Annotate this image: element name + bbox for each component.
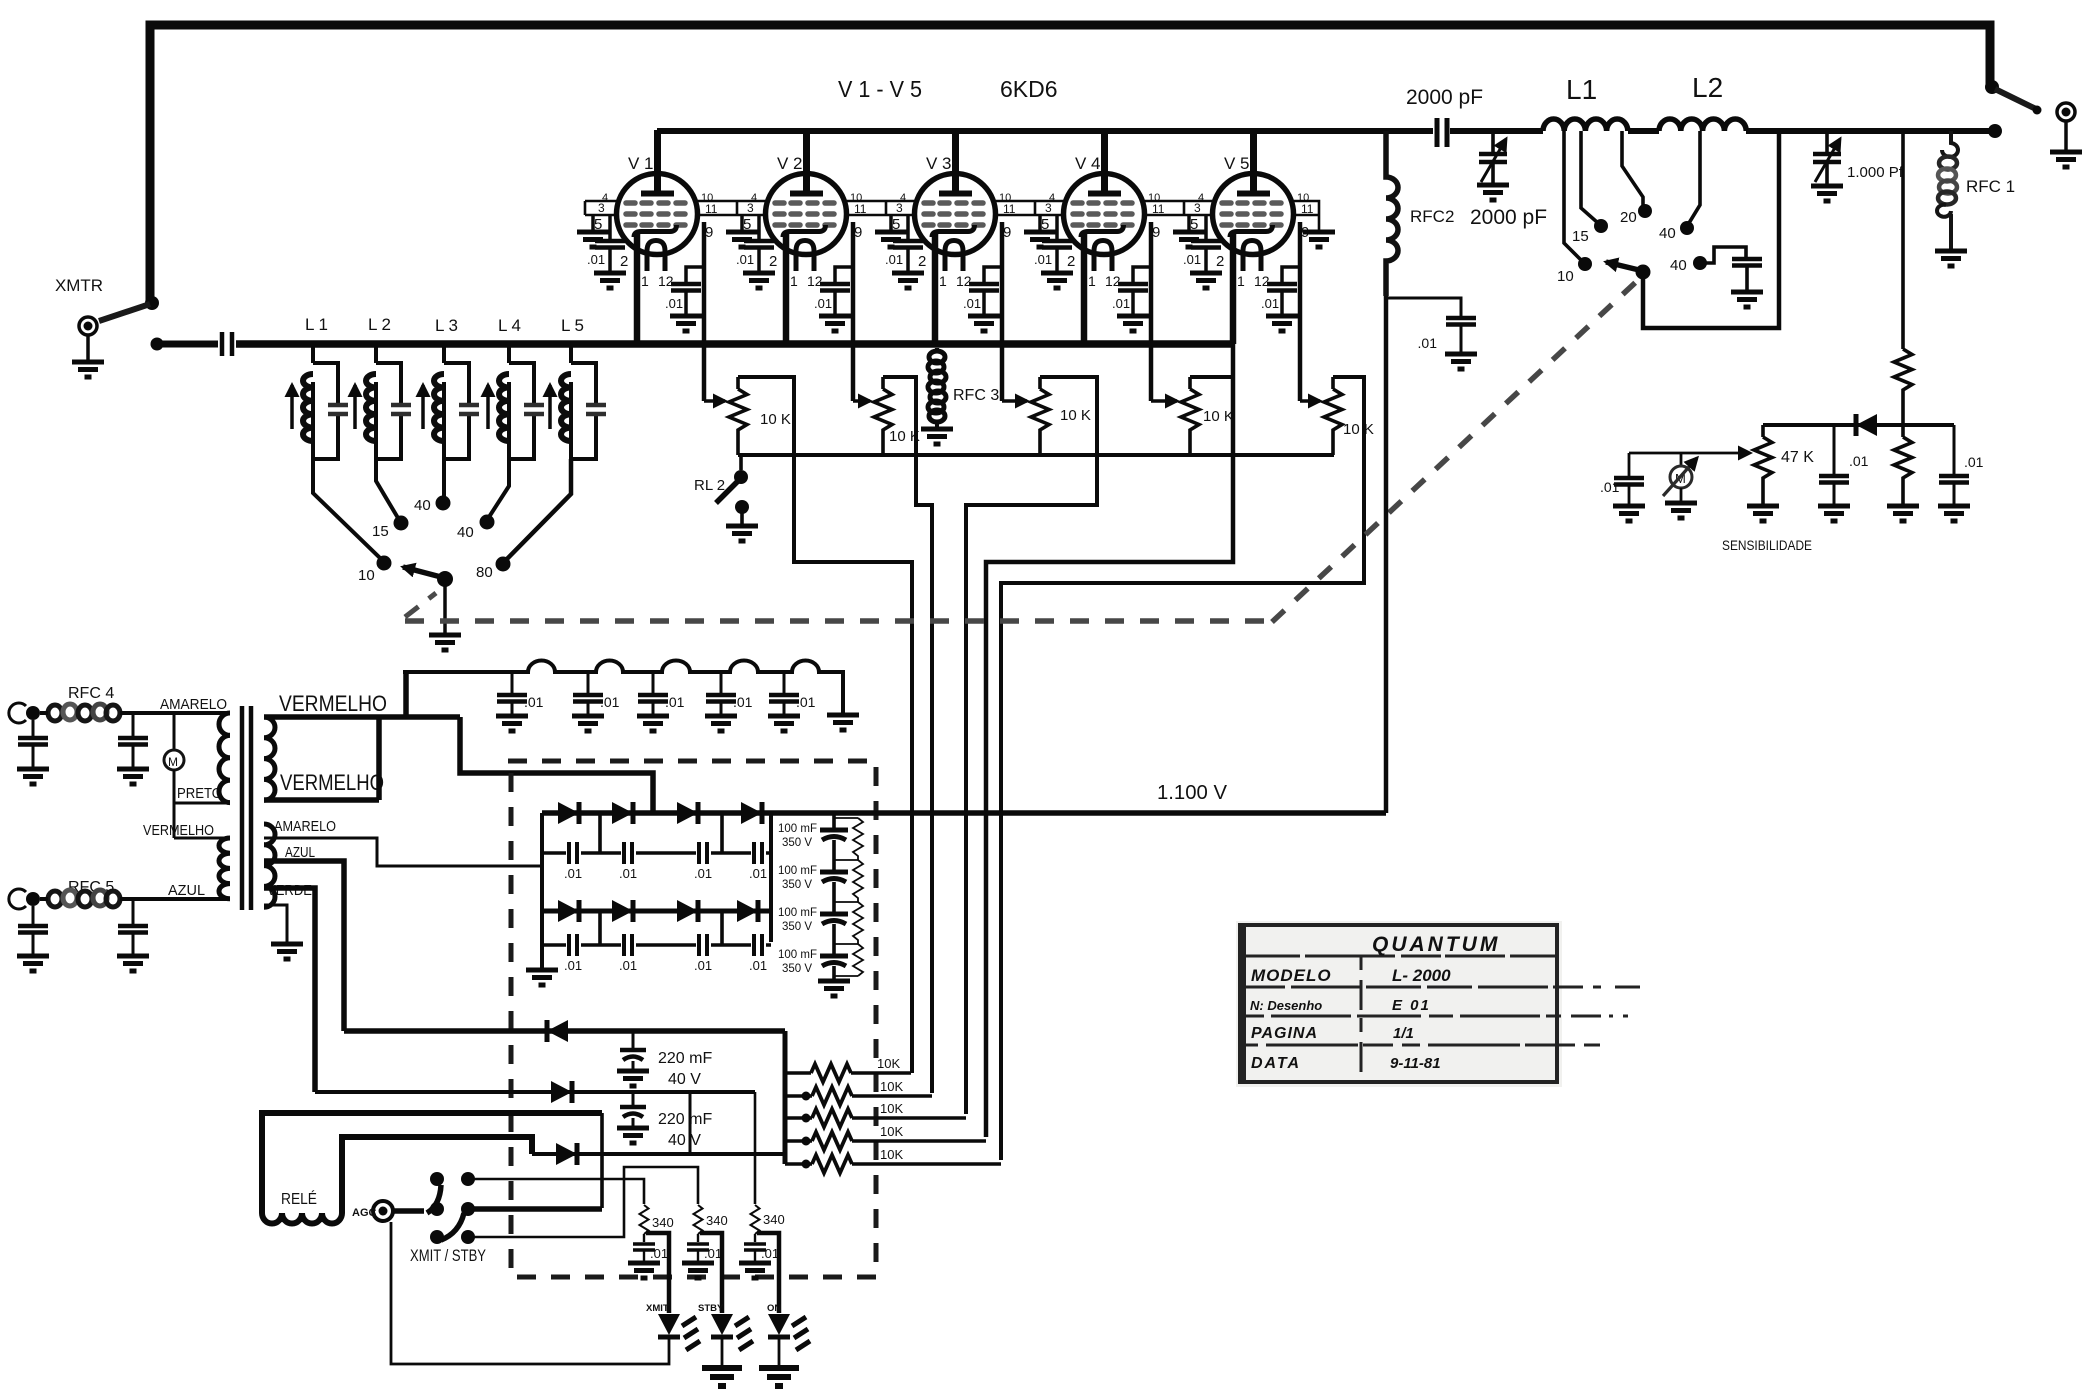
svg-text:.01: .01 xyxy=(1418,335,1438,351)
ground RFC4 left xyxy=(17,769,49,784)
svg-text:SENSIBILIDADE: SENSIBILIDADE xyxy=(1722,537,1812,553)
transformer secondary winding upper xyxy=(264,717,275,800)
connector AGC xyxy=(373,1201,393,1221)
capacitor 100mF chain xyxy=(832,813,836,979)
wire L2 tap 40 xyxy=(1689,131,1700,223)
wire tank2 stub xyxy=(374,341,378,363)
wire bias diode2 line xyxy=(315,1090,755,1094)
capacitor 220mF no1 xyxy=(632,1031,635,1048)
wire L1 tap 15 xyxy=(1581,131,1598,223)
connector RFC4 xyxy=(26,706,40,720)
switch band arm xyxy=(403,567,441,577)
svg-text:10 K: 10 K xyxy=(1060,407,1091,424)
wire LED3 to ground xyxy=(778,1338,781,1366)
svg-text:XMIT / STBY: XMIT / STBY xyxy=(410,1246,486,1265)
svg-text:.01: .01 xyxy=(564,866,582,881)
capacitor .01 right xyxy=(1939,476,1969,483)
svg-text:XMTR: XMTR xyxy=(55,276,103,295)
coil RFC5 xyxy=(48,890,120,907)
wire contact mid thick xyxy=(469,1206,602,1212)
node contact 10 xyxy=(377,556,392,571)
ground LED3 xyxy=(759,1368,799,1386)
resistor bank 10K no2 xyxy=(785,1094,932,1098)
wire LED2 to ground xyxy=(721,1338,724,1366)
ground divider xyxy=(1887,506,1919,521)
capacitor chain .01 no1 xyxy=(511,672,514,694)
diode detector xyxy=(1856,414,1877,436)
capacitor 2000pF series xyxy=(1437,118,1447,147)
wire diode row2 xyxy=(542,909,771,914)
svg-text:.01: .01 xyxy=(564,958,582,973)
svg-text:80: 80 xyxy=(476,564,493,581)
svg-text:AMARELO: AMARELO xyxy=(160,696,227,713)
resistor 340 no3 xyxy=(751,1205,760,1234)
capacitor .01 led3 xyxy=(754,1234,756,1242)
wire grid band V3-V4 xyxy=(995,201,1064,215)
capacitor .01 meter xyxy=(1614,478,1644,485)
wire pot1 feed to psu xyxy=(738,377,912,1073)
wire antenna connector stub xyxy=(2064,121,2068,150)
svg-text:.01: .01 xyxy=(600,694,620,710)
svg-text:10: 10 xyxy=(1557,268,1574,285)
svg-text:10 K: 10 K xyxy=(760,411,791,428)
svg-text:220 mF: 220 mF xyxy=(658,1050,712,1067)
wire VERDE sec xyxy=(264,888,315,1092)
resistor bank 10K no1 xyxy=(785,1071,911,1075)
wire B+ line with diode row1 xyxy=(542,810,1386,816)
node switch pole top-left xyxy=(145,296,159,310)
wire cap row1 xyxy=(542,851,771,855)
resistor divider lower xyxy=(1894,437,1912,481)
tube V5 xyxy=(1173,130,1314,401)
dashed gang line horizontal xyxy=(405,618,1272,624)
svg-text:V 5: V 5 xyxy=(1224,154,1250,173)
capacitor .01 RFC2 xyxy=(1446,318,1476,325)
wire bias diode3 line xyxy=(532,1152,785,1156)
svg-text:.01: .01 xyxy=(1964,454,1984,470)
svg-text:L 3: L 3 xyxy=(435,316,458,335)
svg-text:100 mF: 100 mF xyxy=(778,823,817,835)
tube V1 xyxy=(577,130,718,401)
transformer secondary winding lower xyxy=(264,824,275,907)
potentiometer 47 K xyxy=(1761,425,1765,504)
LED ON xyxy=(768,1314,810,1350)
svg-text:340: 340 xyxy=(706,1213,728,1228)
wire LED1 return loop xyxy=(391,1222,669,1364)
transformer core xyxy=(242,706,251,910)
capacitor variable 1.000 Pf xyxy=(1825,131,1829,152)
meter M sens xyxy=(1670,466,1692,488)
svg-text:9-11-81: 9-11-81 xyxy=(1390,1055,1441,1072)
svg-text:V 2: V 2 xyxy=(777,154,803,173)
wire grid band V4-V5 xyxy=(1144,201,1213,215)
transformer primary winding lower xyxy=(219,838,230,899)
wire plate bus xyxy=(657,128,1995,134)
svg-text:10K: 10K xyxy=(880,1124,903,1139)
wire divider chain xyxy=(1901,131,1905,504)
svg-text:L 1: L 1 xyxy=(305,315,328,334)
wire cap row2 xyxy=(542,943,771,947)
svg-text:L 5: L 5 xyxy=(561,316,584,335)
wire tank4 to contact 40b xyxy=(489,459,509,517)
svg-text:10K: 10K xyxy=(880,1101,903,1116)
svg-text:E 01: E 01 xyxy=(1392,997,1431,1014)
diode row1 d4 xyxy=(741,802,762,824)
svg-text:40: 40 xyxy=(1659,225,1676,242)
diode bias1 xyxy=(547,1020,568,1042)
wire 340no2 to LED2 xyxy=(700,1233,722,1313)
capacitor .01 led2 xyxy=(697,1234,699,1242)
wire bridge left vertical xyxy=(540,813,544,968)
svg-text:RELÉ: RELÉ xyxy=(281,1189,317,1208)
capacitor RFC5 left xyxy=(32,906,35,925)
svg-text:AMARELO: AMARELO xyxy=(274,818,336,835)
switch arrow into pot5 xyxy=(1300,399,1320,403)
svg-text:DATA: DATA xyxy=(1251,1055,1301,1072)
switch XMIT/STBY arms xyxy=(392,1208,424,1214)
wire meter bracket xyxy=(1629,452,1750,455)
LED XMIT xyxy=(658,1314,700,1350)
svg-text:VERMELHO: VERMELHO xyxy=(280,770,384,795)
svg-text:350 V: 350 V xyxy=(782,921,812,933)
ground RFC1 xyxy=(1935,251,1967,266)
svg-text:100 mF: 100 mF xyxy=(778,865,817,877)
svg-text:N: Desenho: N: Desenho xyxy=(1250,998,1322,1013)
svg-text:PRETO: PRETO xyxy=(177,785,222,802)
svg-text:100 mF: 100 mF xyxy=(778,949,817,961)
ground .01 right xyxy=(1938,506,1970,521)
wire bus end down to psu xyxy=(986,344,1233,1137)
wire L1 tap 10 xyxy=(1564,131,1582,261)
capacitor 220mF no2 xyxy=(632,1092,635,1105)
ground .01 mid xyxy=(1818,506,1850,521)
svg-text:.01: .01 xyxy=(1849,453,1869,469)
svg-text:10K: 10K xyxy=(880,1079,903,1094)
svg-text:AZUL: AZUL xyxy=(168,882,205,899)
svg-text:1.100 V: 1.100 V xyxy=(1157,782,1228,804)
wire RFC2 down to B+ xyxy=(1384,296,1389,813)
svg-text:STBY: STBY xyxy=(698,1303,724,1314)
node bus right end xyxy=(1988,124,2002,138)
switch arrow into pot4 xyxy=(1151,399,1177,403)
svg-text:.01: .01 xyxy=(619,866,637,881)
node antenna switch pole xyxy=(1985,80,1999,94)
ground LED2 xyxy=(702,1368,742,1386)
wire heater chain xyxy=(403,661,843,714)
ground RFC5 left xyxy=(17,956,49,971)
capacitor chain .01 no3 xyxy=(652,672,655,694)
wire RFC4 to transformer xyxy=(40,711,230,715)
wire tank5 to contact 80 xyxy=(506,459,571,560)
inductor/tank L5 xyxy=(550,363,606,459)
diode bias3 xyxy=(556,1143,577,1165)
connector XMTR xyxy=(79,317,97,335)
svg-text:20: 20 xyxy=(1620,209,1637,226)
svg-text:QUANTUM: QUANTUM xyxy=(1372,933,1500,956)
inductor/tank L3 xyxy=(423,363,479,459)
connector antenna xyxy=(2057,103,2075,121)
diode row2 d4 xyxy=(737,900,758,922)
ground RFC4 right xyxy=(117,769,149,784)
capacitor chain .01 no2 xyxy=(587,672,590,694)
switch arrow into pot3 xyxy=(1002,399,1027,403)
capacitor variable 2000pF xyxy=(1491,131,1495,152)
wire diode2 to 340 no3 xyxy=(754,1092,757,1204)
tube V3 xyxy=(875,130,1016,401)
wire bridge right vertical xyxy=(769,813,773,942)
svg-text:M: M xyxy=(168,755,178,769)
wire common grid line xyxy=(738,453,1334,457)
dashed link stub at band switch xyxy=(405,593,436,617)
ground variable cap xyxy=(1477,185,1509,200)
diode row1 d3 xyxy=(677,802,698,824)
switch arrow into pot1 xyxy=(704,399,725,403)
resistors bleeder x4 xyxy=(834,818,863,976)
node contact 15R xyxy=(1594,219,1608,233)
wire connector stub xyxy=(86,335,90,360)
inductor L1 xyxy=(1543,119,1628,131)
svg-text:350 V: 350 V xyxy=(782,963,812,975)
resistor bank 10K no5 xyxy=(785,1162,1001,1166)
capacitor chain .01 no5 xyxy=(783,672,786,694)
switch tune arm xyxy=(1606,262,1639,270)
resistor 340 no1 xyxy=(640,1205,649,1234)
svg-text:350 V: 350 V xyxy=(782,879,812,891)
title block frame xyxy=(1236,921,1562,1087)
wire grid band right of V5 xyxy=(1293,201,1319,230)
LED STBY xyxy=(711,1314,753,1350)
svg-text:10 K: 10 K xyxy=(1203,408,1234,425)
svg-text:15: 15 xyxy=(372,523,389,540)
node contact 40R2 xyxy=(1693,256,1707,270)
wire rotor to ground xyxy=(443,579,447,633)
wire main bus xyxy=(236,340,1233,348)
svg-text:RFC2: RFC2 xyxy=(1410,207,1454,226)
transformer primary winding upper xyxy=(219,713,230,803)
capacitor 40R2 xyxy=(1732,259,1762,266)
potentiometer 10K no3 xyxy=(1038,377,1042,455)
wire winding end to ground xyxy=(264,905,287,942)
diode row1 d2 xyxy=(612,802,633,824)
tube V4 xyxy=(1024,130,1165,401)
potentiometer 10K no5 xyxy=(1331,377,1335,455)
ground RFC5 right xyxy=(117,956,149,971)
svg-text:VERMELHO: VERMELHO xyxy=(143,822,214,839)
svg-text:RL 2: RL 2 xyxy=(694,477,725,494)
diode row2 d1 xyxy=(558,900,579,922)
ground chain end xyxy=(827,715,859,730)
wire detector line xyxy=(1763,423,1954,427)
svg-text:PAGINA: PAGINA xyxy=(1251,1025,1318,1042)
svg-text:RFC 1: RFC 1 xyxy=(1966,177,2015,196)
svg-text:AGC: AGC xyxy=(352,1207,377,1219)
ground .01 meter xyxy=(1613,506,1645,521)
node contact 20R xyxy=(1638,204,1652,218)
svg-text:40 V: 40 V xyxy=(668,1132,701,1149)
node contact 10R xyxy=(1578,257,1592,271)
ground winding end xyxy=(271,944,303,959)
ground 47K xyxy=(1747,506,1779,521)
svg-text:MODELO: MODELO xyxy=(1251,966,1332,985)
svg-text:.01: .01 xyxy=(761,1246,779,1261)
ground antenna xyxy=(2050,152,2082,167)
tube V2 xyxy=(726,130,867,401)
wire VERMELHO top xyxy=(264,672,653,813)
svg-text:10 K: 10 K xyxy=(1343,421,1374,438)
wire RFC3 stub xyxy=(935,348,939,427)
potentiometer 10K no2 xyxy=(881,377,885,455)
inductor L2 xyxy=(1659,119,1746,131)
wire RFC2 to bypass cap xyxy=(1386,298,1461,316)
wire relay drive down xyxy=(600,1113,604,1208)
switch band rotor xyxy=(437,571,453,587)
svg-text:1/1: 1/1 xyxy=(1393,1025,1414,1042)
capacitor RFC5 right xyxy=(132,899,135,925)
svg-text:RFC 4: RFC 4 xyxy=(68,685,114,702)
wire tank1 stub xyxy=(311,341,315,363)
svg-text:RFC 3: RFC 3 xyxy=(953,387,999,404)
svg-text:2000 pF: 2000 pF xyxy=(1470,206,1547,229)
wire grid band V2-V3 xyxy=(846,201,915,215)
wire AMARELO drop vertical xyxy=(541,866,544,968)
capacitor RFC4 left xyxy=(32,720,35,737)
wire contact low to 340 no2 xyxy=(467,1167,698,1237)
svg-text:.01: .01 xyxy=(524,694,544,710)
ground band switch xyxy=(429,635,461,650)
wire 40R2 to cap xyxy=(1706,247,1746,263)
wire bridge junction verticals xyxy=(600,813,722,945)
title block text xyxy=(1250,933,1500,1072)
svg-text:40: 40 xyxy=(1670,257,1687,274)
node bank dots xyxy=(802,1092,811,1101)
dashed psu box xyxy=(508,761,876,1277)
inductor/tank L4 xyxy=(488,363,544,459)
svg-text:340: 340 xyxy=(763,1212,785,1227)
switch XMTR arm xyxy=(99,304,150,321)
capacitor row2 .01 x4 xyxy=(569,934,577,956)
coil RFC4 xyxy=(48,704,120,721)
svg-text:220 mF: 220 mF xyxy=(658,1111,712,1128)
wire tank1 to contact 10 xyxy=(313,459,381,559)
svg-text:VERMELHO: VERMELHO xyxy=(279,691,387,716)
wire grid band V1-V2 xyxy=(697,201,766,215)
ground 1.000 Pf xyxy=(1811,186,1843,201)
svg-text:V 1: V 1 xyxy=(628,154,654,173)
capacitor .01 led1 xyxy=(643,1234,645,1242)
svg-text:L 4: L 4 xyxy=(498,316,521,335)
capacitor chain .01 no4 xyxy=(720,672,723,694)
meter M transformer xyxy=(164,750,184,770)
ground right of V5 xyxy=(1303,232,1335,247)
wire tank5 stub xyxy=(569,341,573,363)
wire main bus left xyxy=(157,341,218,348)
potentiometer 10K no1 xyxy=(736,377,740,455)
node contact 80 xyxy=(496,557,511,572)
wire tank3 stub xyxy=(442,341,446,363)
wire top outer loop xyxy=(150,25,1990,303)
ground XMTR xyxy=(72,362,104,377)
wire AMARELO sec xyxy=(264,838,542,866)
ground 100mF chain xyxy=(818,981,850,996)
wire contact up to 340 no1 xyxy=(468,1179,644,1204)
svg-text:L 2: L 2 xyxy=(368,315,391,334)
svg-text:V 3: V 3 xyxy=(926,154,952,173)
wire 340no3 to LED3 xyxy=(757,1233,779,1313)
svg-text:.01: .01 xyxy=(1600,479,1620,495)
wire 10K bank left vertical xyxy=(783,1031,788,1164)
svg-text:.01: .01 xyxy=(619,958,637,973)
svg-text:2000 pF: 2000 pF xyxy=(1406,86,1483,109)
svg-text:1.000 Pf: 1.000 Pf xyxy=(1847,164,1904,181)
wire AZUL sec xyxy=(264,861,344,1031)
switch antenna arm xyxy=(1995,89,2036,109)
labels 100mF xyxy=(778,823,817,975)
svg-text:V 4: V 4 xyxy=(1075,154,1101,173)
svg-text:.01: .01 xyxy=(694,958,712,973)
wire pot5 feed to psu xyxy=(1001,377,1364,1160)
svg-text:15: 15 xyxy=(1572,228,1589,245)
wire pot2 feed to psu xyxy=(883,377,932,1093)
wire junction diode2-diode3 xyxy=(689,1092,692,1154)
svg-text:L- 2000: L- 2000 xyxy=(1392,966,1451,985)
svg-text:350 V: 350 V xyxy=(782,837,812,849)
ground RL2 xyxy=(726,526,758,541)
svg-text:.01: .01 xyxy=(749,958,767,973)
potentiometer 10K no4 xyxy=(1188,377,1192,455)
svg-text:V 1 - V 5: V 1 - V 5 xyxy=(838,76,922,102)
svg-text:.01: .01 xyxy=(694,866,712,881)
svg-text:10K: 10K xyxy=(880,1147,903,1162)
ground RFC2 cap xyxy=(1445,354,1477,369)
wire tank4 stub xyxy=(507,341,511,363)
svg-text:6KD6: 6KD6 xyxy=(1000,76,1058,102)
wire pot3 feed to psu xyxy=(966,377,1097,1114)
svg-text:340: 340 xyxy=(652,1215,674,1230)
svg-text:L2: L2 xyxy=(1692,72,1723,103)
capacitor row1 .01 x4 xyxy=(569,842,577,864)
relay contact RL2 xyxy=(739,455,743,470)
wire rotor loop to bus xyxy=(1643,132,1779,328)
ground 40R2 cap xyxy=(1731,292,1763,307)
connector RFC5 xyxy=(26,892,40,906)
coil RFC3 xyxy=(928,351,946,422)
wire grid band left of V1 xyxy=(585,201,617,215)
node contact 40R1 xyxy=(1680,221,1694,235)
node bus left end xyxy=(151,338,164,351)
wire 340no1 to LED1 xyxy=(646,1233,669,1313)
svg-text:10: 10 xyxy=(358,567,375,584)
svg-text:40: 40 xyxy=(414,497,431,514)
capacitor RFC4 right xyxy=(132,713,135,737)
ground RFC3 xyxy=(921,429,953,444)
switch XMIT/STBY contacts xyxy=(430,1172,444,1186)
svg-text:40 V: 40 V xyxy=(668,1071,701,1088)
ground bridge left xyxy=(526,970,558,985)
svg-text:.01: .01 xyxy=(704,1246,722,1261)
ground meter xyxy=(1665,503,1697,518)
svg-text:40: 40 xyxy=(457,524,474,541)
node contact 40b xyxy=(480,515,495,530)
svg-text:.01: .01 xyxy=(665,694,685,710)
svg-text:.01: .01 xyxy=(796,694,816,710)
svg-text:.01: .01 xyxy=(650,1246,668,1261)
coil RFC1 xyxy=(1942,131,1958,157)
svg-text:10K: 10K xyxy=(877,1056,900,1071)
diode row1 d1 xyxy=(558,802,579,824)
diode row2 d3 xyxy=(677,900,698,922)
svg-text:.01: .01 xyxy=(733,694,753,710)
switch arrow into pot2 xyxy=(853,399,870,403)
